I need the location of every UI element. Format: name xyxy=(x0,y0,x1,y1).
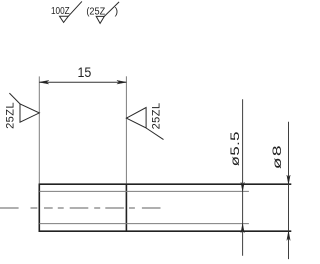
svg-text:25ZL: 25ZL xyxy=(151,102,163,129)
svg-text:100Z: 100Z xyxy=(51,4,70,16)
svg-text:): ) xyxy=(115,5,119,17)
svg-text:ø8: ø8 xyxy=(271,144,284,169)
svg-text:ø5.5: ø5.5 xyxy=(229,131,242,166)
svg-text:15: 15 xyxy=(77,65,91,81)
svg-text:25ZL: 25ZL xyxy=(4,102,16,129)
svg-text:(25Z: (25Z xyxy=(86,6,105,17)
